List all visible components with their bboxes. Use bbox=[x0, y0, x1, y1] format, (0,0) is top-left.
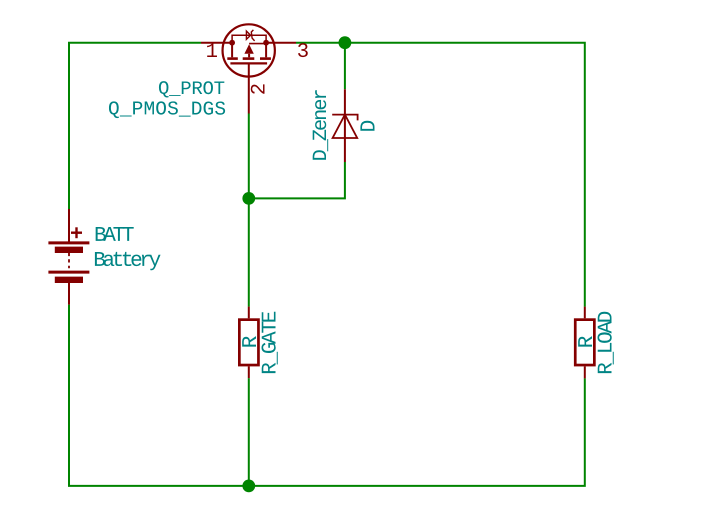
svg-text:D: D bbox=[358, 120, 382, 133]
svg-text:Battery: Battery bbox=[93, 250, 161, 273]
svg-text:1: 1 bbox=[206, 41, 218, 64]
svg-text:BATT: BATT bbox=[94, 225, 135, 248]
svg-text:Q_PMOS_DGS: Q_PMOS_DGS bbox=[108, 98, 226, 120]
svg-text:Q_PROT: Q_PROT bbox=[158, 78, 225, 100]
svg-text:R_GATE: R_GATE bbox=[259, 311, 282, 375]
svg-text:D_Zener: D_Zener bbox=[310, 88, 333, 161]
svg-text:R_LOAD: R_LOAD bbox=[595, 311, 618, 375]
svg-text:2: 2 bbox=[248, 83, 271, 95]
svg-text:3: 3 bbox=[297, 41, 309, 64]
